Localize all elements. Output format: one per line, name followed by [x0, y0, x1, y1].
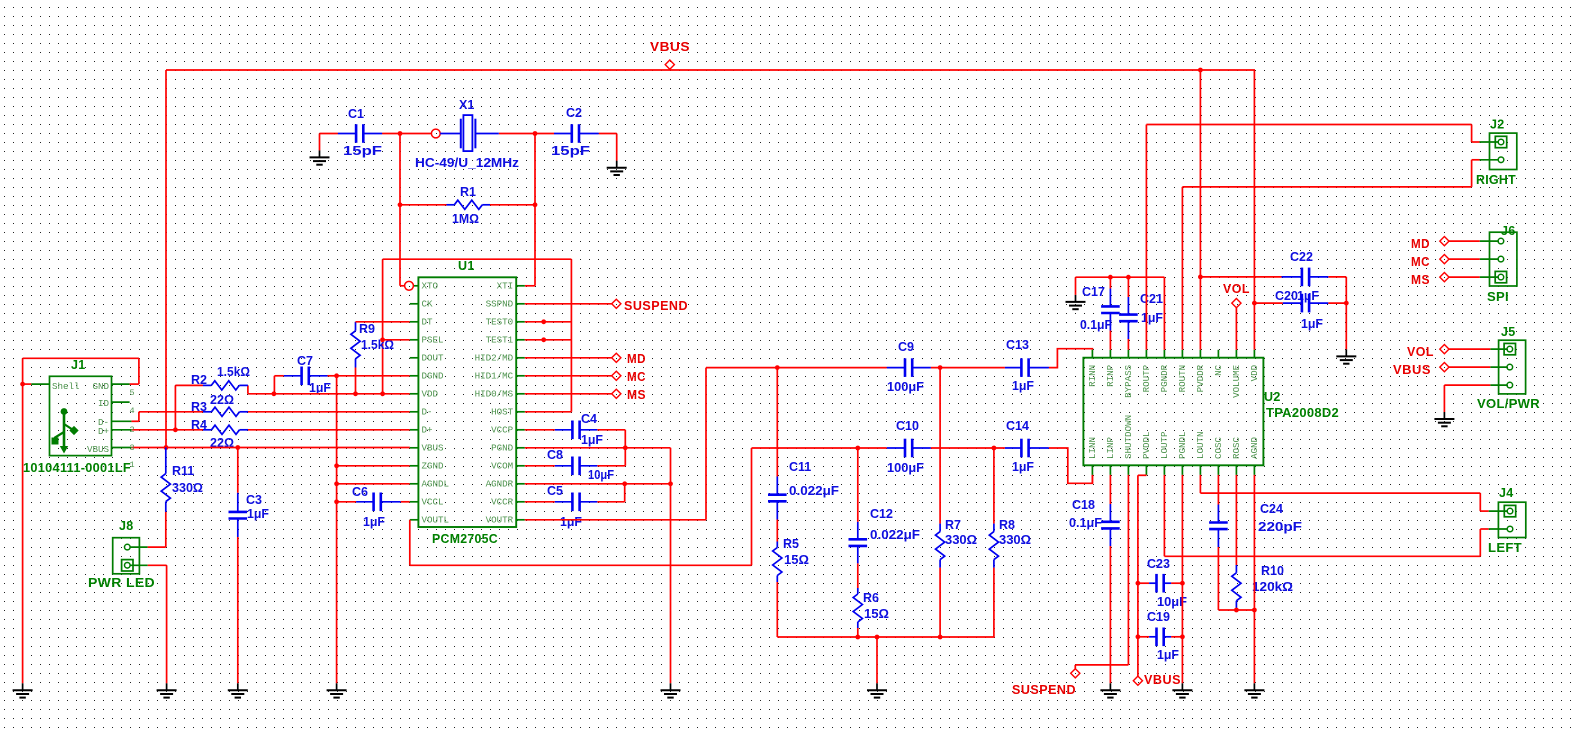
svg-text:RINP: RINP	[1105, 364, 1116, 387]
node VBUS (right flag)	[1393, 363, 1449, 378]
wire J1 GND/Shell loop	[23, 358, 139, 683]
junction AGNDR/PGND	[668, 481, 673, 486]
node SUSPEND (flag)	[612, 299, 688, 313]
junction C17	[1108, 275, 1113, 280]
svg-text:C5: C5	[547, 484, 563, 498]
svg-text:J1: J1	[71, 358, 86, 372]
wire HID2/MD to flag	[525, 357, 612, 359]
svg-text:PSEL: PSEL	[422, 335, 444, 346]
wire XTAL row	[320, 134, 617, 286]
pin J2.2	[1498, 157, 1504, 163]
wire MS flag to J6	[1449, 276, 1480, 278]
svg-text:D-: D-	[422, 407, 433, 418]
svg-text:C18: C18	[1072, 498, 1095, 512]
capacitor C6	[356, 493, 401, 512]
wire VOUTL run	[410, 448, 887, 565]
svg-text:DGND: DGND	[422, 371, 445, 382]
wire VBUS row (J1)	[131, 447, 409, 449]
ground (J5)	[1434, 412, 1454, 426]
capacitor C19	[1138, 636, 1183, 638]
svg-text:R10: R10	[1261, 564, 1284, 578]
wire J5.3 to ground	[1444, 385, 1490, 412]
pin J5.3	[1507, 382, 1513, 388]
U1 pin stubs right	[516, 286, 525, 520]
svg-text:VBUS: VBUS	[422, 443, 445, 454]
node VOL (right flag)	[1407, 345, 1449, 360]
junction C23-left	[1136, 581, 1141, 586]
svg-text:C3: C3	[246, 493, 262, 507]
resistor R1	[400, 204, 535, 206]
resistor R6	[853, 588, 862, 628]
svg-text:VCCP: VCCP	[491, 425, 514, 436]
wire LINN to C14	[1091, 475, 1093, 483]
svg-text:TEST0: TEST0	[486, 317, 514, 328]
junction C20-C22	[1344, 301, 1349, 306]
wire TEST0	[525, 321, 572, 323]
svg-text:PGNDR: PGNDR	[1159, 364, 1170, 392]
svg-text:SUSPEND: SUSPEND	[1012, 683, 1076, 697]
wire J8.1 to R11	[148, 546, 166, 548]
svg-text:1MΩ: 1MΩ	[452, 212, 479, 226]
svg-text:VBUS: VBUS	[1393, 363, 1431, 377]
junction VBUS/C3	[235, 445, 240, 450]
svg-text:C4: C4	[581, 412, 597, 426]
junction C23-right	[1180, 581, 1185, 586]
svg-text:1μF: 1μF	[1157, 648, 1179, 662]
junction VBUS/rail	[164, 445, 169, 450]
svg-text:3: 3	[130, 443, 135, 453]
junction TEST0	[541, 319, 546, 324]
junction AGND-COSC	[1252, 608, 1257, 613]
ground (filter rail)	[867, 683, 887, 697]
junction PGND/C4/C8	[623, 445, 628, 450]
junction Shell	[20, 382, 25, 387]
resistor R10	[1235, 475, 1237, 610]
wire PSEL	[383, 339, 410, 341]
svg-text:LEFT: LEFT	[1488, 541, 1522, 555]
capacitor C9	[887, 358, 931, 377]
svg-text:PWR LED: PWR LED	[88, 576, 155, 590]
wire SHUTDOWN to SUSPEND flag	[1075, 475, 1128, 669]
U1 pin stubs left	[410, 286, 419, 520]
wire PGNDL down	[1181, 475, 1183, 683]
svg-text:C14: C14	[1006, 419, 1029, 433]
svg-text:AGNDR: AGNDR	[486, 479, 514, 490]
no-connect circle (XTO)	[400, 281, 413, 290]
svg-text:LOUTP: LOUTP	[1159, 431, 1170, 459]
wire C9-C13	[931, 367, 1005, 369]
svg-text:SHUTDOWN: SHUTDOWN	[1123, 415, 1134, 459]
capacitor C1	[338, 124, 382, 143]
wire DGND (C7 row)	[328, 375, 410, 377]
node MC (right flag)	[1411, 255, 1449, 270]
wire MC flag to J6	[1449, 258, 1480, 260]
wire U1 wrap (PSEL/HOST)	[383, 259, 572, 412]
pin J8.1	[125, 544, 131, 550]
U2 pin names	[1087, 364, 1260, 459]
svg-text:VOL/PWR: VOL/PWR	[1477, 397, 1540, 411]
svg-text:R2: R2	[191, 373, 207, 387]
svg-text:ROUTN: ROUTN	[1177, 365, 1188, 393]
svg-text:15Ω: 15Ω	[864, 607, 889, 621]
svg-text:C13: C13	[1006, 338, 1029, 352]
pin J8.2	[122, 560, 133, 571]
resistor R3	[203, 407, 248, 416]
pin J5.1	[1504, 343, 1515, 354]
wire C10-C14	[931, 447, 1005, 449]
U2 pin stubs top	[1092, 350, 1254, 358]
svg-text:ROSC: ROSC	[1231, 436, 1242, 459]
junction VCCL-C6	[334, 499, 339, 504]
capacitor C8	[525, 448, 626, 466]
junction C22-PVDDR	[1198, 275, 1203, 280]
node MS (flag)	[612, 388, 646, 402]
svg-text:VOL: VOL	[1223, 282, 1250, 296]
junction R1-right	[533, 202, 538, 207]
junction rail-R6	[855, 635, 860, 640]
svg-text:DOUT: DOUT	[422, 353, 445, 364]
svg-text:J6: J6	[1501, 224, 1516, 238]
svg-text:22Ω: 22Ω	[210, 393, 234, 407]
wire LOUTP to J4	[1164, 475, 1488, 556]
svg-text:VBUS: VBUS	[1144, 673, 1181, 687]
wire ROUTN to J2	[1182, 160, 1479, 350]
wire MD flag to J6	[1449, 240, 1480, 242]
node MD (flag)	[612, 352, 646, 366]
USB icon (J1)	[52, 408, 79, 453]
svg-text:MC: MC	[627, 370, 646, 384]
svg-text:1μF: 1μF	[581, 433, 603, 447]
svg-text:0.022μF: 0.022μF	[789, 484, 839, 498]
svg-text:U2: U2	[1264, 390, 1281, 404]
op-amp U1 PCM2705C box	[418, 259, 516, 546]
capacitor C11	[776, 368, 778, 542]
wire bottom filter rail	[777, 637, 994, 683]
svg-text:5: 5	[130, 388, 135, 398]
svg-text:C2: C2	[566, 106, 582, 120]
svg-text:PGND: PGND	[491, 443, 514, 454]
svg-text:C6: C6	[352, 485, 368, 499]
svg-text:SPI: SPI	[1487, 290, 1509, 304]
svg-text:0.1μF: 0.1μF	[1069, 516, 1102, 530]
svg-text:R11: R11	[172, 464, 194, 478]
node MD (right flag)	[1411, 237, 1449, 252]
svg-text:COSC: COSC	[1213, 436, 1224, 459]
svg-text:C8: C8	[547, 448, 563, 462]
svg-text:XTI: XTI	[497, 281, 514, 292]
svg-text:AGNDL: AGNDL	[422, 479, 450, 490]
connector J2	[1476, 118, 1517, 188]
svg-text:J4: J4	[1499, 486, 1514, 500]
svg-text:LINP: LINP	[1105, 436, 1116, 459]
junction XTAL-right	[533, 131, 538, 136]
svg-text:1μF: 1μF	[560, 515, 582, 529]
svg-text:HC-49/U_12MHz: HC-49/U_12MHz	[415, 156, 519, 170]
svg-text:R1: R1	[460, 185, 476, 199]
junction R8 top	[992, 446, 997, 451]
junction VOUTR/C11	[775, 365, 780, 370]
svg-text:TPA2008D2: TPA2008D2	[1266, 406, 1339, 420]
svg-text:HID0/MS: HID0/MS	[475, 389, 514, 400]
wire VOL flag to J5	[1449, 348, 1490, 350]
svg-text:10μF: 10μF	[588, 468, 614, 482]
ground (AGND)	[1244, 683, 1264, 697]
svg-text:0.1μF: 0.1μF	[1080, 318, 1112, 332]
junction R7 top	[938, 365, 943, 370]
svg-text:X1: X1	[459, 98, 474, 112]
svg-text:C10: C10	[896, 419, 919, 433]
svg-text:DT: DT	[422, 317, 434, 328]
svg-text:VOUTL: VOUTL	[422, 515, 450, 526]
wire ZGND	[337, 465, 410, 467]
wire J8.2 to ground	[148, 565, 167, 683]
wire LOUTN to J4	[1200, 475, 1488, 511]
svg-text:J2: J2	[1490, 118, 1505, 132]
wire AGNDL	[337, 483, 410, 485]
connector J4	[1488, 486, 1526, 555]
pin J5.2	[1507, 364, 1513, 370]
svg-text:330Ω: 330Ω	[172, 481, 203, 495]
svg-text:1μF: 1μF	[1012, 379, 1034, 393]
no-connect circle (X1 pin)	[431, 129, 440, 138]
svg-text:C21: C21	[1140, 292, 1163, 306]
capacitor C22	[1200, 277, 1346, 303]
junction TEST1	[541, 337, 546, 342]
svg-text:ZGND: ZGND	[422, 461, 445, 472]
wire U2 ground rail	[1076, 277, 1165, 350]
svg-text:VOL: VOL	[1407, 345, 1434, 359]
ground (PWR LED)	[157, 683, 177, 697]
pin J2.1	[1495, 136, 1506, 147]
wire SSPND to SUSPEND flag	[525, 303, 612, 305]
svg-text:LOUTN: LOUTN	[1195, 431, 1206, 459]
junction C19-left	[1136, 634, 1141, 639]
pin J6.2	[1498, 256, 1504, 262]
wire AGNDR row	[525, 484, 671, 684]
svg-text:MC: MC	[1411, 255, 1430, 269]
capacitor C13	[1005, 358, 1049, 377]
crystal X1	[415, 98, 519, 170]
wire DGND rail down	[336, 376, 338, 684]
resistor R9	[355, 368, 357, 394]
wire TEST1	[525, 339, 572, 341]
svg-text:R4: R4	[191, 418, 207, 432]
wire VCCL stubs	[337, 501, 410, 503]
junction rail-R7	[938, 635, 943, 640]
svg-text:SUSPEND: SUSPEND	[624, 299, 688, 313]
svg-text:Shell: Shell	[52, 381, 80, 392]
capacitor C20	[1254, 303, 1346, 349]
svg-text:1μF: 1μF	[309, 381, 331, 395]
svg-text:RIGHT: RIGHT	[1476, 173, 1516, 187]
wire D+ row	[131, 429, 409, 431]
svg-text:HID2/MD: HID2/MD	[475, 353, 514, 364]
capacitor C23	[1138, 582, 1183, 584]
capacitor C3	[237, 448, 239, 684]
svg-text:MS: MS	[627, 388, 646, 402]
amplifier U2 TPA2008D2 box	[1083, 358, 1339, 466]
svg-text:PVDDL: PVDDL	[1141, 431, 1152, 459]
pin J6.3	[1495, 271, 1506, 282]
capacitor C5	[525, 484, 625, 502]
wire AGND down	[1253, 475, 1255, 683]
svg-text:AGND: AGND	[1249, 436, 1260, 459]
svg-text:J8: J8	[119, 519, 134, 533]
svg-text:1μF: 1μF	[363, 515, 385, 529]
wire VDD row	[248, 393, 410, 395]
svg-text:TEST1: TEST1	[486, 335, 514, 346]
node VBUS (bottom flag)	[1133, 673, 1181, 687]
junction VDD-C7	[272, 391, 277, 396]
svg-text:R9: R9	[359, 322, 375, 336]
junction C21	[1126, 275, 1131, 280]
capacitor C7	[274, 376, 283, 394]
ground (PGNDL)	[1172, 683, 1192, 697]
capacitor C24	[1218, 475, 1254, 610]
svg-text:LINN: LINN	[1087, 437, 1098, 459]
ground (C1)	[310, 150, 330, 164]
junction C10/C12	[855, 446, 860, 451]
svg-text:CK: CK	[422, 299, 434, 310]
wire HID0/MS to flag	[525, 393, 612, 395]
svg-text:HID1/MC: HID1/MC	[475, 371, 514, 382]
wire PGND row	[525, 448, 671, 484]
capacitor C12	[857, 448, 859, 588]
ground (C3)	[228, 683, 248, 697]
junction R10 bottom	[1234, 608, 1239, 613]
svg-text:ID: ID	[98, 398, 110, 409]
svg-text:100μF: 100μF	[887, 461, 924, 475]
svg-text:220pF: 220pF	[1258, 520, 1302, 534]
ground (U2 input rail)	[1066, 295, 1086, 309]
capacitor C21	[1127, 277, 1129, 350]
svg-text:330Ω: 330Ω	[945, 533, 977, 547]
junction AGNDL	[334, 481, 339, 486]
resistor R11	[161, 448, 170, 512]
capacitor C14	[1005, 439, 1049, 458]
svg-text:D+: D+	[98, 426, 109, 437]
node VBUS (top flag)	[650, 40, 690, 69]
junction C20-VDD	[1252, 301, 1257, 306]
wire D- row	[139, 411, 410, 413]
wire C14 to LINN	[1049, 448, 1093, 483]
wire PVDDL to VBUS flag	[1138, 475, 1147, 676]
svg-text:C12: C12	[870, 507, 893, 521]
node VOL (flag)	[1223, 282, 1250, 350]
svg-text:C20: C20	[1275, 289, 1298, 303]
connector J8	[88, 519, 155, 590]
svg-text:VCCL: VCCL	[422, 497, 444, 508]
connector J1	[23, 358, 135, 475]
svg-text:C1: C1	[348, 107, 364, 121]
svg-text:1μF: 1μF	[1301, 317, 1323, 331]
svg-text:C11: C11	[789, 460, 811, 474]
svg-text:RINN: RINN	[1087, 365, 1098, 387]
svg-text:R3: R3	[191, 400, 207, 414]
junction C19-right	[1180, 634, 1185, 639]
junction XTAL-left	[398, 131, 403, 136]
svg-text:XTO: XTO	[422, 281, 439, 292]
svg-text:NC: NC	[1213, 364, 1224, 376]
node MC (flag)	[612, 370, 646, 384]
svg-text:0.022μF: 0.022μF	[870, 528, 920, 542]
ground (C20/C22)	[1336, 349, 1356, 363]
svg-text:PGNDL: PGNDL	[1177, 431, 1188, 459]
pin J4.2	[1507, 526, 1513, 532]
svg-text:C7: C7	[297, 354, 313, 368]
wire C13 to RINN	[1049, 349, 1093, 368]
svg-text:15pF: 15pF	[343, 144, 382, 158]
capacitor C4	[525, 430, 626, 448]
pin J6.1	[1498, 238, 1504, 244]
svg-text:1μF: 1μF	[1012, 460, 1034, 474]
capacitor C10	[887, 439, 931, 458]
junction VBUS/PVDDR	[1198, 68, 1203, 73]
svg-text:2: 2	[130, 425, 135, 435]
wire VOUTR run	[525, 368, 887, 520]
svg-text:C19: C19	[1147, 610, 1170, 624]
ground (C18)	[1100, 683, 1120, 697]
svg-text:VBUS: VBUS	[650, 40, 690, 54]
svg-text:MS: MS	[1411, 273, 1430, 287]
pin J4.1	[1504, 505, 1515, 516]
wire VBUS top rail	[166, 70, 1255, 448]
resistor R8	[993, 448, 995, 637]
svg-text:GND: GND	[92, 381, 109, 392]
ground (AGNDR)	[661, 683, 681, 697]
svg-text:MD: MD	[627, 352, 646, 366]
wire VBUS flag to J5	[1449, 366, 1490, 368]
svg-text:SSPND: SSPND	[486, 299, 514, 310]
wire HID1/MC to flag	[525, 375, 612, 377]
svg-text:C23: C23	[1147, 557, 1170, 571]
junction rail-gnd	[875, 635, 880, 640]
svg-text:R5: R5	[783, 537, 799, 551]
svg-text:BYPASS: BYPASS	[1123, 364, 1134, 398]
svg-text:1μF: 1μF	[247, 507, 269, 521]
svg-text:15pF: 15pF	[551, 144, 590, 158]
svg-text:VCOM: VCOM	[491, 461, 513, 472]
svg-text:VBUS: VBUS	[87, 444, 110, 455]
junction AGNDR/C5	[622, 481, 627, 486]
wire J1 D- jog	[131, 412, 139, 422]
svg-text:15Ω: 15Ω	[784, 553, 809, 567]
svg-text:1μF: 1μF	[1141, 311, 1163, 325]
svg-text:VDD: VDD	[422, 389, 439, 400]
junction R1-left	[398, 202, 403, 207]
svg-text:C9: C9	[898, 340, 914, 354]
svg-text:R7: R7	[945, 518, 961, 532]
junction PSEL	[380, 337, 385, 342]
U1 pin names	[422, 281, 514, 526]
connector J5	[1477, 325, 1540, 411]
junction C7-right / DGND rail	[334, 373, 339, 378]
connector J6	[1480, 224, 1517, 304]
junction ZGND	[334, 463, 339, 468]
svg-text:C24: C24	[1260, 502, 1283, 516]
capacitor C18	[1109, 475, 1111, 683]
capacitor C17	[1109, 277, 1111, 350]
svg-text:U1: U1	[458, 259, 475, 273]
wire DT	[356, 321, 410, 323]
svg-text:J5: J5	[1501, 325, 1516, 339]
svg-text:120kΩ: 120kΩ	[1252, 580, 1293, 594]
svg-text:HOST: HOST	[491, 407, 514, 418]
ground (DGND rail)	[327, 683, 347, 697]
resistor R4	[203, 425, 248, 434]
svg-text:PCM2705C: PCM2705C	[432, 532, 498, 546]
ground (C2)	[607, 161, 627, 175]
